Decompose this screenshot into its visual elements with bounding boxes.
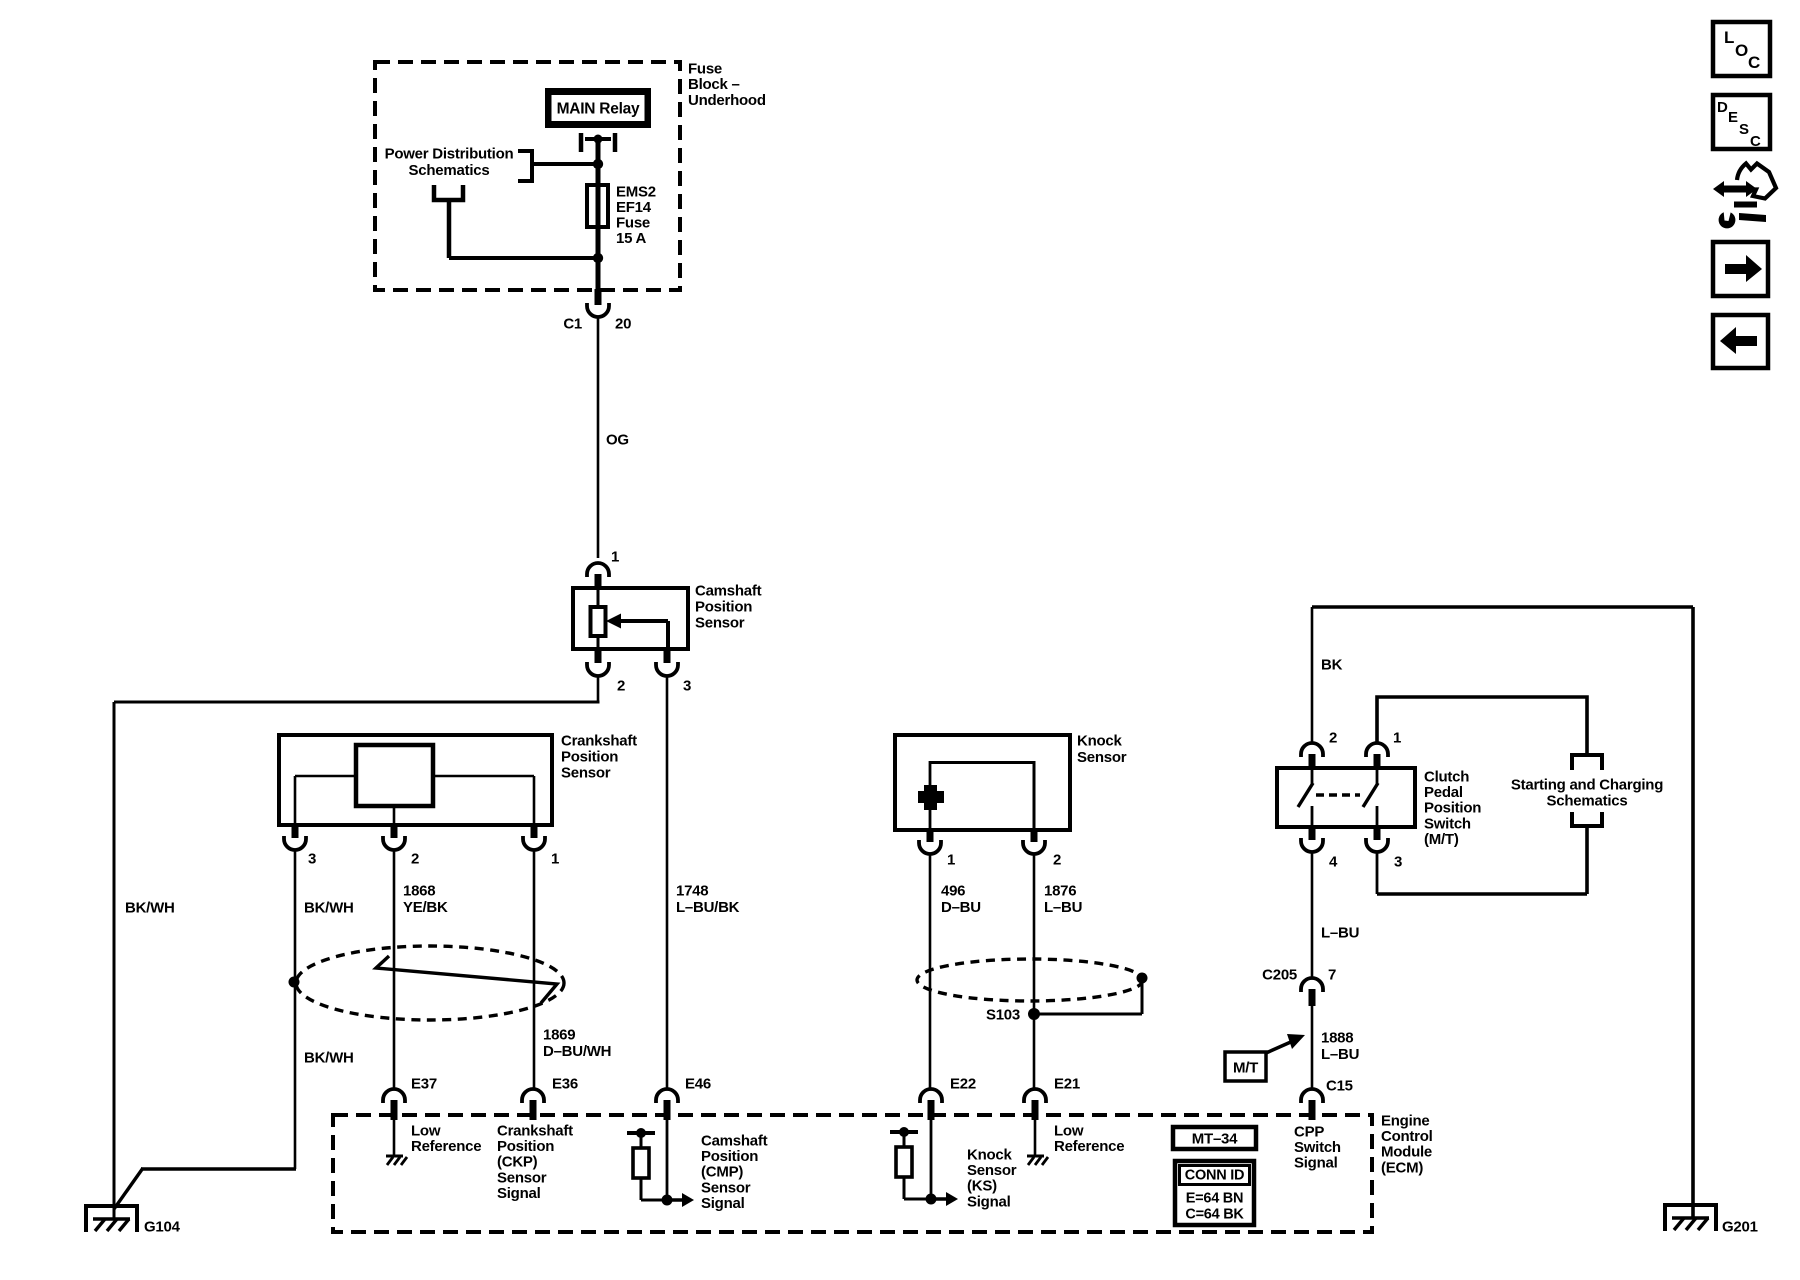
node junction relay/powerdist — [593, 159, 603, 169]
wire 1868 CKP pin2 to E37 — [393, 850, 396, 1089]
svg-text:E37: E37 — [411, 1076, 437, 1093]
svg-text:Control: Control — [1381, 1128, 1433, 1145]
svg-text:D: D — [1717, 99, 1728, 116]
ground G104 — [86, 1204, 137, 1208]
svg-text:(M/T): (M/T) — [1424, 831, 1459, 848]
twisted pair ellipse (CKP wires) — [296, 946, 564, 1020]
CPP pin4 stub — [1309, 827, 1316, 840]
svg-text:Module: Module — [1381, 1144, 1432, 1161]
connector E21 stub — [1032, 1100, 1039, 1120]
svg-text:Camshaft: Camshaft — [701, 1133, 768, 1150]
wire 496 KS pin1 to E22 — [929, 854, 932, 1089]
svg-text:S: S — [1739, 121, 1749, 138]
svg-text:20: 20 — [615, 316, 631, 333]
connector C205 stub — [1309, 989, 1316, 1006]
svg-text:496: 496 — [941, 883, 965, 900]
wire 1876 KS pin2 to E21 — [1033, 854, 1036, 1089]
node splice S103 — [1028, 1008, 1040, 1020]
CPP pin2 stub — [1309, 754, 1316, 769]
node on ellipse right — [1137, 973, 1148, 984]
CPP pin1 stub — [1374, 754, 1381, 769]
relay contact cup — [579, 133, 584, 152]
svg-text:Knock: Knock — [1077, 733, 1123, 750]
svg-text:L–BU: L–BU — [1044, 899, 1082, 916]
svg-text:E: E — [1728, 109, 1738, 126]
svg-text:Camshaft: Camshaft — [695, 583, 762, 600]
svg-text:Sensor: Sensor — [695, 615, 745, 632]
svg-text:Reference: Reference — [1054, 1138, 1124, 1155]
CPP switch dashed link — [1316, 793, 1360, 796]
svg-text:(CKP): (CKP) — [497, 1154, 538, 1171]
svg-text:C=64 BK: C=64 BK — [1185, 1207, 1244, 1223]
connector E22 stub — [928, 1100, 935, 1120]
connector pin1 stub — [595, 574, 602, 590]
wire OG C1 to CMP pin1 — [597, 317, 600, 558]
svg-text:2: 2 — [1329, 730, 1337, 747]
svg-text:Position: Position — [497, 1138, 554, 1155]
svg-text:Switch: Switch — [1424, 815, 1471, 832]
connector E46 dome — [656, 1089, 678, 1103]
camshaft position sensor box — [573, 588, 688, 649]
CPP pin3 cup — [1366, 838, 1388, 852]
svg-text:2: 2 — [617, 678, 625, 695]
ECM low reference ground (E21) — [1034, 1120, 1037, 1156]
CKP internal wires — [295, 775, 356, 778]
svg-text:Crankshaft: Crankshaft — [497, 1123, 573, 1140]
svg-text:Signal: Signal — [1294, 1155, 1338, 1172]
svg-text:M/T: M/T — [1233, 1060, 1258, 1077]
engine control module dashed outline — [333, 1115, 1372, 1232]
svg-text:BK/WH: BK/WH — [304, 900, 354, 917]
wire L-BU CPP pin4 to C205 — [1311, 852, 1314, 978]
fuse block - underhood dashed outline — [375, 62, 680, 290]
CPP pin1 dome — [1366, 743, 1388, 757]
CKP pin2 cup — [383, 836, 405, 850]
CMP internal arrow — [620, 619, 668, 623]
svg-text:L: L — [1724, 28, 1734, 47]
MT-34 reference box — [1173, 1127, 1256, 1149]
wire 1748 CMP pin3 to E46 — [666, 675, 669, 1089]
off-page bracket Power Distribution (lower) — [434, 185, 463, 200]
svg-text:Schematics: Schematics — [409, 162, 490, 179]
wire E46 internal — [666, 1120, 669, 1200]
svg-text:C205: C205 — [1262, 967, 1297, 984]
svg-text:C: C — [1750, 133, 1761, 150]
svg-text:Signal: Signal — [497, 1185, 541, 1202]
node splice on BK/WH wire — [289, 977, 300, 988]
CKP pin2 stub — [391, 825, 398, 838]
svg-text:D–BU: D–BU — [941, 899, 981, 916]
svg-text:Sensor: Sensor — [967, 1162, 1017, 1179]
svg-text:Engine: Engine — [1381, 1113, 1430, 1130]
svg-text:E22: E22 — [950, 1076, 976, 1093]
CMP pin2 stub — [595, 649, 602, 663]
connector E37 dome — [383, 1089, 405, 1103]
svg-text:Sensor: Sensor — [1077, 749, 1127, 766]
svg-text:1869: 1869 — [543, 1027, 575, 1044]
connector E21 dome — [1024, 1089, 1046, 1103]
connector E37 stub — [391, 1100, 398, 1120]
svg-text:Signal: Signal — [701, 1195, 745, 1212]
wire E22 internal — [930, 1120, 933, 1199]
CKP pin3 cup — [284, 836, 306, 850]
connector C1 cup — [587, 303, 609, 317]
twisted pair swap line — [376, 956, 557, 1003]
wire BK/WH CKP pin3 to G104 — [294, 850, 297, 1169]
svg-text:Signal: Signal — [967, 1193, 1011, 1210]
CKP pin1 stub — [531, 825, 538, 838]
svg-text:OG: OG — [606, 432, 629, 449]
svg-text:MAIN Relay: MAIN Relay — [557, 101, 640, 118]
KS pin2 cup — [1023, 840, 1045, 854]
svg-text:EMS2: EMS2 — [616, 184, 656, 201]
wire CPP pin3 to Starting/Charging — [1376, 852, 1379, 894]
svg-text:L–BU/BK: L–BU/BK — [676, 899, 740, 916]
svg-text:E36: E36 — [552, 1076, 578, 1093]
connector C1 stub — [595, 289, 602, 305]
knock sensor box — [895, 735, 1070, 830]
connector E22 dome — [920, 1089, 942, 1103]
svg-text:Crankshaft: Crankshaft — [561, 733, 637, 750]
svg-text:Position: Position — [701, 1148, 758, 1165]
M/T callout box — [1225, 1052, 1266, 1081]
svg-text:Low: Low — [411, 1123, 441, 1140]
connector C15 dome — [1301, 1089, 1323, 1103]
KS pin2 stub — [1031, 830, 1038, 842]
CONN ID table — [1175, 1161, 1254, 1225]
relay K1 MAIN Relay box — [545, 88, 651, 128]
wire clutch pin2 from bus — [1311, 607, 1314, 743]
svg-text:Fuse: Fuse — [688, 61, 722, 78]
svg-text:(KS): (KS) — [967, 1178, 997, 1195]
CMP sensing element — [597, 590, 600, 607]
svg-text:Starting and Charging: Starting and Charging — [1511, 777, 1663, 794]
CPP pin4 cup — [1301, 838, 1323, 852]
svg-text:3: 3 — [308, 851, 316, 868]
wire relay to fuse (power) — [596, 139, 601, 290]
svg-text:2: 2 — [1053, 852, 1061, 869]
CPP switch blades — [1311, 768, 1314, 784]
off-page bracket Starting/Charging bottom — [1572, 812, 1602, 826]
svg-text:1888: 1888 — [1321, 1030, 1353, 1047]
svg-text:C: C — [1748, 53, 1760, 72]
CKP pin3 stub — [292, 825, 299, 838]
connector E36 stub — [530, 1100, 537, 1120]
CKP inner element box — [356, 745, 433, 806]
svg-text:1: 1 — [1393, 730, 1401, 747]
svg-text:Sensor: Sensor — [701, 1179, 751, 1196]
svg-text:4: 4 — [1329, 854, 1338, 871]
CMP pin3 stub — [664, 649, 671, 663]
svg-text:Power Distribution: Power Distribution — [385, 146, 514, 163]
icon DESC box — [1713, 95, 1770, 149]
svg-text:MT–34: MT–34 — [1192, 1131, 1238, 1148]
KS pin1 stub — [927, 830, 934, 842]
svg-text:L–BU: L–BU — [1321, 925, 1359, 942]
svg-text:7: 7 — [1328, 967, 1336, 984]
knock piezo element — [918, 791, 944, 803]
wire powerdist tap — [533, 162, 598, 166]
svg-text:BK/WH: BK/WH — [125, 900, 175, 917]
svg-text:2: 2 — [411, 851, 419, 868]
svg-text:C1: C1 — [563, 316, 582, 333]
svg-text:Fuse: Fuse — [616, 215, 650, 232]
svg-text:G104: G104 — [144, 1219, 181, 1236]
svg-text:Position: Position — [695, 599, 752, 616]
svg-text:Block –: Block – — [688, 76, 740, 93]
crankshaft position sensor box — [279, 735, 552, 825]
svg-text:Pedal: Pedal — [1424, 784, 1463, 801]
svg-text:Low: Low — [1054, 1123, 1084, 1140]
svg-text:Switch: Switch — [1294, 1139, 1341, 1156]
ECM low reference ground (E37) — [393, 1120, 396, 1156]
svg-text:E21: E21 — [1054, 1076, 1080, 1093]
svg-text:BK/WH: BK/WH — [304, 1050, 354, 1067]
svg-text:Clutch: Clutch — [1424, 769, 1469, 786]
svg-text:E46: E46 — [685, 1076, 711, 1093]
svg-text:G201: G201 — [1722, 1219, 1758, 1236]
svg-text:1: 1 — [551, 851, 559, 868]
wire 1869 CKP pin1 to E36 — [533, 850, 536, 1089]
splice S103 wire — [1034, 1013, 1142, 1016]
CPP pin2 dome — [1301, 743, 1323, 757]
CKP pin1 cup — [523, 836, 545, 850]
svg-text:Sensor: Sensor — [561, 765, 611, 782]
svg-text:Underhood: Underhood — [688, 92, 766, 109]
connector pin1 dome — [587, 563, 609, 577]
svg-text:3: 3 — [683, 678, 691, 695]
svg-text:CONN ID: CONN ID — [1185, 1168, 1244, 1184]
svg-text:Reference: Reference — [411, 1138, 481, 1155]
svg-text:Schematics: Schematics — [1547, 793, 1628, 810]
icon LOC box — [1713, 22, 1770, 76]
icon prev-page arrow box — [1713, 315, 1768, 368]
svg-text:Knock: Knock — [967, 1147, 1013, 1164]
connector C15 stub — [1309, 1100, 1316, 1120]
svg-text:S103: S103 — [986, 1007, 1020, 1024]
svg-text:CPP: CPP — [1294, 1124, 1324, 1141]
twisted pair ellipse (KS wires) — [917, 959, 1143, 1001]
KS pin1 cup — [919, 840, 941, 854]
knock internal wires — [929, 761, 932, 785]
resistor pull-up (KS input) — [890, 1130, 918, 1134]
svg-text:YE/BK: YE/BK — [403, 899, 448, 916]
svg-text:Position: Position — [561, 749, 618, 766]
svg-text:1868: 1868 — [403, 883, 435, 900]
resistor pull-up (CMP input) — [627, 1131, 655, 1135]
wire BK top bus — [1312, 605, 1693, 609]
CPP pin3 stub — [1374, 827, 1381, 840]
svg-text:BK: BK — [1321, 657, 1343, 674]
svg-text:Sensor: Sensor — [497, 1169, 547, 1186]
svg-text:15 A: 15 A — [616, 230, 647, 247]
svg-text:Position: Position — [1424, 800, 1481, 817]
connector E36 dome — [522, 1089, 544, 1103]
M/T callout arrow — [1266, 1041, 1293, 1053]
fuse F1 EMS2 EF14 15A — [587, 185, 608, 227]
svg-text:1876: 1876 — [1044, 883, 1076, 900]
ground G201 — [1665, 1203, 1716, 1207]
node junction fuse bottom — [593, 253, 603, 263]
connector E46 stub — [664, 1100, 671, 1120]
svg-text:O: O — [1735, 41, 1748, 60]
svg-text:1748: 1748 — [676, 883, 708, 900]
wire 1888 C205 to C15 — [1311, 1006, 1314, 1089]
svg-text:3: 3 — [1394, 854, 1402, 871]
svg-text:L–BU: L–BU — [1321, 1046, 1359, 1063]
svg-text:D–BU/WH: D–BU/WH — [543, 1043, 611, 1060]
icon schematic/tools — [1713, 181, 1757, 197]
connector C205 dome — [1301, 978, 1323, 992]
wire CMP pin2 to left bus — [597, 675, 600, 702]
CPP lower contacts — [1311, 806, 1314, 827]
svg-text:C15: C15 — [1326, 1078, 1353, 1095]
svg-text:EF14: EF14 — [616, 199, 652, 216]
clutch pedal position switch box — [1277, 768, 1415, 827]
off-page bracket Power Distribution (right) — [518, 151, 532, 181]
CMP pin3 cup — [656, 662, 678, 676]
svg-text:1: 1 — [947, 852, 955, 869]
svg-text:E=64 BN: E=64 BN — [1186, 1191, 1244, 1207]
wire clutch pin1 loop — [1377, 697, 1587, 753]
icon next-page arrow box — [1713, 242, 1768, 296]
wire lower bracket to fuse bottom — [447, 200, 452, 258]
off-page bracket Starting/Charging top — [1572, 755, 1602, 770]
CMP pin2 cup — [587, 662, 609, 676]
svg-text:(ECM): (ECM) — [1381, 1159, 1423, 1176]
svg-text:(CMP): (CMP) — [701, 1164, 743, 1181]
svg-text:1: 1 — [611, 549, 619, 566]
